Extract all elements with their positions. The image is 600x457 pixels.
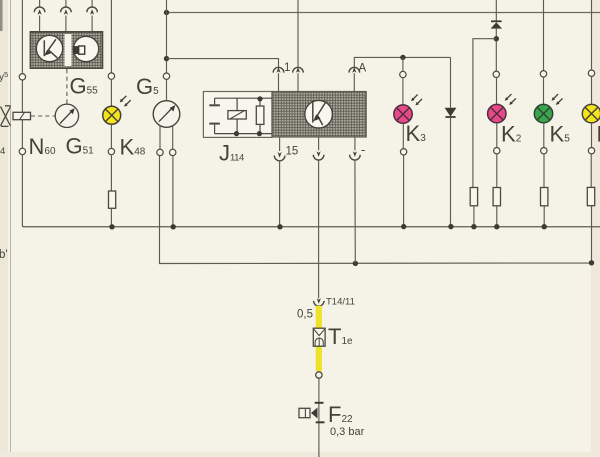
resistor on branch leg [470, 188, 477, 206]
node: K5 on bus [542, 224, 547, 229]
svg-text:4: 4 [0, 146, 5, 157]
pressure switch F22 [299, 403, 325, 423]
node: G5 wire to terminal-1 wire [164, 56, 169, 61]
node: K2 diode junction [494, 36, 499, 41]
wire: terminal A up and right to K3/diode [354, 57, 450, 66]
wire [543, 77, 545, 105]
wire [591, 123, 593, 148]
node: G5 right leg on bus [171, 224, 176, 229]
wire [110, 155, 112, 192]
wire [450, 117, 452, 227]
wire [473, 206, 475, 227]
wire: top supply bus [167, 12, 600, 14]
node: A-wire to K3 junction [400, 55, 405, 60]
svg-text:1: 1 [284, 62, 290, 74]
wire: K48 branch from top edge [110, 0, 112, 73]
mechanical dashed link N60 to G51 [31, 115, 55, 117]
wire: N60 branch down to bus corner [22, 154, 24, 226]
wire [402, 123, 404, 149]
resistor on K5 branch [541, 188, 548, 206]
node: diode branch on bus [448, 224, 453, 229]
wire [591, 76, 593, 104]
svg-text:K: K [597, 122, 600, 147]
terminal arrow 1 of instrument cluster [34, 0, 45, 32]
wire [496, 123, 498, 148]
warning lamp K3 [394, 95, 422, 124]
wire [590, 154, 592, 188]
terminal (second) of control unit [293, 67, 304, 91]
connector circle 4 (bottom of N60 branch) [19, 148, 25, 154]
wire: to terminal 1 of control unit [167, 59, 279, 67]
connector circle G5 left leg [157, 149, 163, 155]
svg-text:0,5: 0,5 [297, 309, 313, 321]
node: resistor leg on bus [471, 224, 476, 229]
terminal minus of control unit [350, 137, 361, 263]
node: right end junction of lower line [589, 260, 594, 265]
wire [110, 79, 112, 106]
wire: K5 branch from top edge [543, 0, 545, 71]
wire [496, 77, 498, 104]
connector circle bottom of K2 [494, 148, 500, 154]
wire [166, 79, 168, 101]
relay box J114 [203, 92, 272, 138]
node: K3 on bus [401, 224, 406, 229]
terminal arrow 2 of instrument cluster [61, 0, 72, 32]
svg-text:-: - [361, 142, 365, 157]
node: resistor bottom junction [257, 131, 262, 136]
wire [110, 208, 112, 227]
connector circle top of right lamp [588, 70, 594, 76]
connector circle top of K48 [108, 73, 114, 79]
gauge instrument inside control unit [305, 100, 333, 128]
svg-text:T14/11: T14/11 [326, 297, 355, 308]
wire: G5 right leg [172, 126, 174, 150]
terminal A of control unit [349, 67, 360, 91]
wire [496, 206, 498, 227]
terminal 15 of control unit [274, 137, 285, 227]
wire: right lamp branch from top edge [591, 0, 593, 70]
node: top bus start junction [164, 10, 169, 15]
diode (cathode up) on K2 branch [491, 21, 502, 28]
node: minus junction on lower line [353, 261, 358, 266]
wire: lower horizontal line [160, 155, 592, 264]
wire: branch to resistor leg [473, 39, 496, 188]
connector circle G5 right leg [170, 149, 176, 155]
wire [543, 123, 545, 148]
clock instrument inside G55 (left circle) [36, 35, 62, 61]
wire [110, 124, 112, 148]
wire [543, 206, 545, 227]
wire: diode branch from A-wire [450, 57, 452, 107]
wire [496, 154, 498, 188]
connector circle top of G5 [163, 73, 169, 79]
warning lamp K2 [488, 94, 516, 123]
connector T1e [313, 328, 325, 346]
resistor on K48 branch [109, 191, 116, 208]
wire: G5 right leg to bus [172, 155, 174, 226]
solenoid winding N60 [13, 112, 31, 119]
wire: J114 inner bottom rail [215, 133, 272, 135]
resistor on K2 branch [493, 188, 500, 206]
connector circle top of K3 [400, 71, 406, 77]
gauge G5 [153, 101, 180, 128]
connector circle at end of yellow wire [316, 372, 322, 378]
warning lamp (right, partly cut) [582, 104, 600, 122]
mechanical dashed link G55 to G51 [66, 69, 68, 104]
wire [402, 78, 404, 105]
wire: K3 branch [402, 57, 404, 71]
terminal 1 of control unit [273, 67, 284, 91]
wire: N60 branch from top edge [21, 0, 23, 74]
node: coil bottom junction [234, 131, 239, 136]
diode (cathode down) on K3 parallel branch [445, 108, 457, 117]
warning lamp K5 [534, 94, 562, 123]
wire [495, 29, 497, 72]
wire: main horizontal bus [23, 226, 600, 228]
connector circle top of K5 [540, 71, 546, 77]
node: K48 to bus [109, 224, 114, 229]
terminal (middle, to T1e) of control unit [313, 137, 324, 298]
wire: G5 left leg [159, 126, 161, 150]
capacitor inside J114 [209, 98, 220, 133]
wire: K2 branch from top edge [495, 0, 497, 21]
svg-text:15: 15 [286, 146, 299, 158]
connector circle top of K2 [493, 71, 499, 77]
gauge instrument inside G55 (right circle) [73, 36, 99, 61]
control unit box (hatched) with gauge [272, 92, 366, 138]
connector circle bottom of K5 [541, 148, 547, 154]
connector circle bottom of K48 [108, 148, 114, 154]
valve symbol of N60 [1, 106, 11, 127]
connector circle bottom of right lamp [588, 148, 594, 154]
relay coil inside J114 [228, 98, 246, 133]
resistor on right lamp branch [587, 187, 594, 205]
wire: J114 inner top rail [215, 97, 272, 99]
warning lamp K48 [103, 96, 131, 125]
wire: N60 branch upper segment [21, 80, 23, 149]
yellow wire of T1e [316, 306, 322, 371]
terminal arrow 3 of instrument cluster [87, 0, 98, 32]
wire down to F22 [318, 378, 320, 457]
node: terminal 15 on bus [277, 224, 282, 229]
terminal T14/11 (arc with down arrow) [314, 298, 324, 306]
node: K2 on bus [494, 224, 499, 229]
connector circle y5 (top of N60 branch) [19, 74, 25, 80]
wire from top edge crossing top bus [297, 0, 299, 67]
wire: K3 to bus [403, 155, 405, 227]
svg-text:0,3 bar: 0,3 bar [330, 426, 365, 438]
gauge G51 [55, 104, 78, 127]
svg-text:A: A [359, 63, 367, 75]
node: resistor top junction [257, 96, 262, 101]
connector circle bottom of K3 [400, 149, 406, 155]
resistor inside J114 [256, 98, 264, 133]
svg-text:b': b' [0, 249, 8, 261]
wire [543, 154, 545, 188]
wire: G5 branch from top edge [166, 0, 168, 73]
instrument cluster box G55 (hatched) [30, 32, 102, 68]
